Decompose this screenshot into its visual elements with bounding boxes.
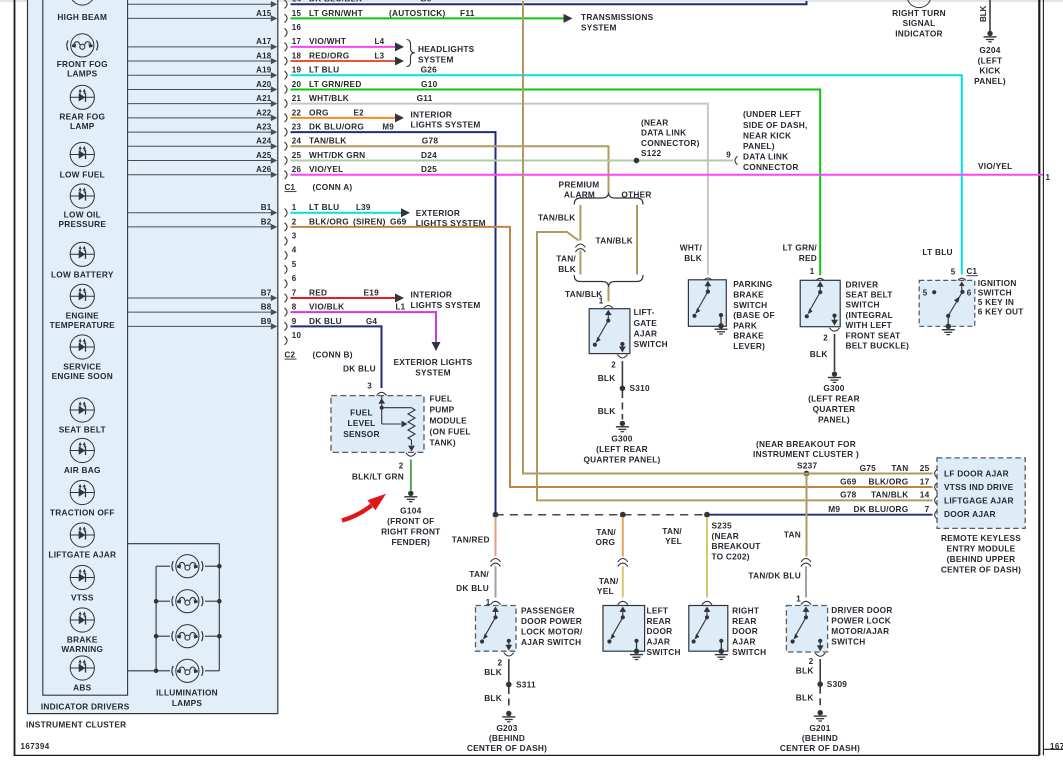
svg-text:YEL: YEL: [665, 536, 682, 546]
svg-text:L4: L4: [375, 37, 385, 46]
wire instrument cluster pin A17: [128, 37, 278, 50]
svg-text:TAN/BLK: TAN/BLK: [596, 236, 634, 246]
svg-text:PARK: PARK: [733, 320, 757, 330]
svg-text:LOCK MOTOR/: LOCK MOTOR/: [521, 626, 583, 636]
svg-text:WHT/BLK: WHT/BLK: [309, 93, 349, 103]
wire instrument cluster pin B1: [128, 203, 278, 216]
node connector C2 pin 7: [285, 288, 297, 302]
svg-text:SYSTEM: SYSTEM: [418, 54, 454, 64]
svg-text:B2: B2: [261, 217, 272, 226]
indicator brake: [61, 608, 103, 654]
svg-text:22: 22: [292, 108, 302, 117]
svg-text:VTSS: VTSS: [71, 592, 94, 602]
svg-text:QUARTER: QUARTER: [813, 404, 856, 414]
svg-text:BLK/ORG: BLK/ORG: [868, 476, 908, 486]
wire instrument cluster pin A24: [128, 137, 278, 150]
wire G69 BLK/ORG to remote keyless module pin 17: [509, 476, 933, 487]
wire TAN/BLK circuit G78 to liftgate ajar switch: [291, 136, 609, 193]
indicator drivers box: [41, 0, 130, 712]
svg-text:DK BLU: DK BLU: [456, 583, 489, 593]
wire DK BLU circuit G4 to fuel pump module: [291, 316, 382, 388]
svg-text:AJAR SWITCH: AJAR SWITCH: [521, 637, 581, 647]
svg-text:TAN/BLK: TAN/BLK: [565, 289, 603, 299]
svg-text:G69: G69: [390, 216, 407, 226]
svg-text:DOOR: DOOR: [647, 626, 673, 636]
svg-text:21: 21: [292, 94, 302, 103]
svg-text:CENTER OF DASH): CENTER OF DASH): [780, 743, 860, 753]
svg-text:6: 6: [967, 288, 972, 297]
wire adjacent page bottom border fragment: [1043, 748, 1063, 750]
svg-text:INSTRUMENT CLUSTER ): INSTRUMENT CLUSTER ): [753, 449, 859, 459]
svg-text:FENDER): FENDER): [391, 537, 430, 547]
node connector C1 label: [285, 182, 353, 192]
wire BLK passenger door to splice S311: [484, 659, 509, 682]
ground right rear door switch: [715, 649, 728, 660]
node page number 167 (next page, cut): [1050, 742, 1063, 751]
node inline connector on left branch: [575, 244, 585, 252]
svg-text:1: 1: [292, 203, 297, 212]
svg-text:14: 14: [920, 490, 930, 500]
svg-text:C2: C2: [285, 351, 296, 360]
svg-text:LEVEL: LEVEL: [348, 418, 376, 428]
svg-text:PUMP: PUMP: [430, 405, 455, 415]
svg-text:LT GRN/WHT: LT GRN/WHT: [309, 8, 363, 18]
svg-text:(SIREN): (SIREN): [353, 216, 386, 226]
wire instrument cluster pin B2: [128, 217, 278, 230]
ground G203: [467, 711, 547, 753]
svg-text:AJAR: AJAR: [732, 637, 756, 647]
node connector C2 pin 9: [285, 317, 297, 331]
node LT GRN/RED label: [783, 242, 818, 263]
indicator low fuel: [60, 142, 105, 179]
svg-text:(LEFT: (LEFT: [978, 55, 1003, 65]
svg-text:RED: RED: [309, 287, 327, 297]
node splice S309: [817, 679, 847, 689]
svg-text:TAN: TAN: [784, 529, 801, 539]
wire BLK liftgate to splice S310: [598, 361, 623, 386]
wire G78 TAN/BLK to remote keyless module pin 14: [536, 490, 933, 501]
svg-text:LEVER): LEVER): [733, 341, 765, 351]
svg-text:(BEHIND: (BEHIND: [802, 733, 838, 743]
node connector C1 pin 19: [285, 66, 302, 80]
svg-text:C1: C1: [285, 183, 296, 192]
svg-text:PANEL): PANEL): [743, 141, 775, 151]
svg-text:CENTER OF DASH): CENTER OF DASH): [941, 564, 1021, 574]
indicator right turn signal (cut at top): [892, 0, 946, 38]
ground G104: [381, 491, 440, 547]
node premium alarm / other branch labels: [559, 180, 652, 200]
wire WHT/BLK circuit G11 to parking brake switch: [291, 93, 708, 274]
wire instrument cluster pin B7: [128, 288, 278, 301]
svg-text:3: 3: [292, 232, 297, 241]
switch left rear door ajar: [603, 601, 681, 657]
node connector C1 pin 14: [285, 0, 302, 8]
wire G75 TAN to remote keyless module pin 25: [522, 1, 933, 475]
svg-text:RED: RED: [799, 253, 817, 263]
wire RED circuit E19 to interior lights: [291, 287, 405, 302]
resistor fuel level sensor: [378, 396, 415, 452]
indicator traction off: [50, 480, 115, 517]
node fuel pump module label: [430, 394, 471, 448]
svg-text:DK BLU/BLK: DK BLU/BLK: [309, 0, 362, 4]
node connector C2 pin 2: [285, 217, 297, 231]
svg-text:7: 7: [292, 288, 297, 297]
svg-text:VIO/BLK: VIO/BLK: [309, 302, 344, 312]
ground left rear door switch: [630, 649, 643, 660]
svg-text:2: 2: [399, 462, 404, 471]
svg-text:(LEFT REAR: (LEFT REAR: [596, 444, 648, 454]
svg-text:BRAKE: BRAKE: [733, 290, 764, 300]
svg-text:BLK/ORG: BLK/ORG: [309, 216, 349, 226]
svg-text:LAMPS: LAMPS: [67, 69, 98, 79]
svg-text:E19: E19: [364, 287, 380, 297]
svg-text:(BEHIND UPPER: (BEHIND UPPER: [947, 554, 1016, 564]
wire TAN/BLK to liftgate switch pin 1: [565, 287, 609, 305]
wire LT GRN/RED circuit G10 to driver seat belt switch: [291, 79, 821, 275]
node connector C1 pin 18: [285, 51, 302, 65]
svg-text:(CONN B): (CONN B): [313, 350, 353, 360]
node data link connector pin 9: [726, 109, 807, 172]
svg-text:MODULE: MODULE: [430, 416, 468, 426]
svg-text:ENGINE: ENGINE: [66, 310, 100, 320]
node exterior lights system label (B1): [416, 208, 486, 228]
svg-text:G75: G75: [860, 463, 877, 473]
node interior lights system label (top): [411, 109, 481, 129]
indicator front fog: [57, 34, 108, 79]
node connector C1 pin 20: [285, 80, 302, 94]
node remote keyless module pin arc: [935, 469, 938, 477]
switch driver seat belt: [800, 267, 909, 351]
svg-text:BELT BUCKLE): BELT BUCKLE): [846, 341, 910, 351]
svg-text:9: 9: [726, 151, 731, 160]
svg-text:(ON FUEL: (ON FUEL: [430, 427, 471, 437]
svg-text:(NEAR: (NEAR: [641, 118, 669, 128]
wire TAN/ORG to left rear door switch: [596, 517, 623, 557]
node connector C2 label: [285, 350, 353, 360]
node connector C1 pin 26: [285, 165, 302, 179]
svg-text:A25: A25: [256, 151, 272, 160]
wire TAN/BLK right branch: [596, 205, 638, 275]
wire TAN/YEL to left rear door switch: [597, 567, 623, 598]
svg-text:SWITCH: SWITCH: [733, 300, 767, 310]
node M9 DK BLU/ORG pin 7 labels: [828, 504, 929, 514]
svg-text:(NEAR BREAKOUT FOR: (NEAR BREAKOUT FOR: [756, 439, 856, 449]
node connector C2 pin 5: [285, 260, 297, 274]
svg-text:HIGH BEAM: HIGH BEAM: [57, 12, 107, 22]
svg-text:A19: A19: [256, 66, 272, 75]
svg-text:24: 24: [292, 137, 302, 146]
svg-text:TO C202): TO C202): [712, 552, 750, 562]
svg-text:TAN/: TAN/: [469, 569, 489, 579]
svg-text:SEAT BELT: SEAT BELT: [846, 290, 893, 300]
node connector C2 pin 1: [285, 203, 297, 217]
svg-text:CONNECTOR: CONNECTOR: [743, 162, 799, 172]
svg-text:BLK: BLK: [598, 406, 616, 416]
svg-text:(INTEGRAL: (INTEGRAL: [846, 310, 893, 320]
svg-text:INDICATOR: INDICATOR: [895, 28, 943, 38]
wire BLK driver door to splice S309: [796, 659, 820, 682]
svg-text:YEL: YEL: [597, 586, 614, 596]
svg-text:PREMIUM: PREMIUM: [559, 180, 600, 190]
svg-text:INDICATOR DRIVERS: INDICATOR DRIVERS: [41, 702, 130, 712]
svg-text:ORG: ORG: [309, 107, 329, 117]
svg-text:L1: L1: [396, 303, 406, 312]
svg-text:RIGHT FRONT: RIGHT FRONT: [381, 526, 440, 536]
svg-text:INTERIOR: INTERIOR: [411, 109, 453, 119]
ground G204: [974, 31, 1006, 86]
svg-text:FRONT FOG: FRONT FOG: [57, 59, 108, 69]
svg-text:BLK: BLK: [796, 692, 814, 702]
svg-text:ABS: ABS: [73, 683, 91, 693]
node WHT/BLK label: [680, 242, 703, 263]
svg-text:KICK: KICK: [979, 66, 1000, 76]
node splice on bus at left rear door: [620, 512, 626, 518]
node headlights system label with brace: [407, 40, 475, 67]
wire page bottom border: [15, 754, 1040, 756]
switch liftgate ajar: [589, 306, 668, 354]
wire instrument cluster pin A25: [128, 151, 278, 164]
svg-text:1: 1: [1046, 173, 1051, 182]
indicator low battery: [51, 242, 114, 279]
indicator high beam: [57, 0, 107, 22]
svg-text:LIFTGATE AJAR: LIFTGATE AJAR: [48, 550, 116, 560]
svg-text:G69: G69: [840, 476, 857, 486]
svg-text:M9: M9: [828, 504, 840, 514]
svg-text:REMOTE KEYLESS: REMOTE KEYLESS: [941, 533, 1021, 543]
wire TAN/BLK left branch: [538, 205, 580, 241]
svg-text:S235: S235: [712, 520, 733, 530]
wire instrument cluster pin A14: [128, 1, 278, 7]
svg-text:(UNDER LEFT: (UNDER LEFT: [743, 109, 801, 119]
svg-text:9: 9: [292, 317, 297, 326]
svg-text:LF DOOR AJAR: LF DOOR AJAR: [944, 468, 1009, 478]
svg-text:AJAR: AJAR: [634, 328, 658, 338]
svg-text:TAN/RED: TAN/RED: [452, 535, 490, 545]
svg-text:VIO/YEL: VIO/YEL: [309, 164, 343, 174]
svg-text:TRANSMISSIONS: TRANSMISSIONS: [581, 12, 654, 22]
wire DK BLU/BLK circuit G9 (row 14): [291, 0, 807, 5]
indicator air bag: [64, 438, 101, 475]
svg-text:3: 3: [367, 382, 372, 391]
wire BLK/ORG circuit G69 (siren) to remote keyless module: [291, 216, 511, 487]
svg-text:E2: E2: [354, 108, 365, 117]
svg-text:ENTRY MODULE: ENTRY MODULE: [947, 543, 1016, 553]
svg-text:A15: A15: [256, 9, 272, 18]
svg-text:NEAR KICK: NEAR KICK: [743, 130, 791, 140]
svg-text:20: 20: [292, 80, 302, 89]
svg-text:LT GRN/: LT GRN/: [783, 242, 818, 252]
svg-text:LT BLU: LT BLU: [922, 247, 952, 257]
svg-text:BLK/LT GRN: BLK/LT GRN: [352, 471, 404, 481]
svg-text:A17: A17: [256, 37, 272, 46]
wire instrument cluster pin B9: [128, 317, 278, 330]
svg-text:PASSENGER: PASSENGER: [521, 605, 575, 615]
wire ORG circuit E2 to interior lights: [291, 107, 405, 122]
node transmissions system label: [581, 12, 654, 33]
svg-text:TANK): TANK): [430, 438, 456, 448]
svg-text:SERVICE: SERVICE: [63, 362, 101, 372]
node connector C2 pin 6: [285, 274, 297, 288]
node red annotation arrow: [342, 494, 386, 521]
svg-text:INTERIOR: INTERIOR: [411, 290, 453, 300]
svg-text:10: 10: [292, 331, 302, 340]
svg-text:5: 5: [951, 267, 956, 276]
wire illumination lamps bus: [128, 544, 222, 673]
svg-text:ORG: ORG: [596, 537, 616, 547]
node interior lights system label (B7): [411, 290, 481, 310]
svg-text:G78: G78: [422, 136, 439, 146]
svg-text:BLK: BLK: [796, 665, 814, 675]
svg-text:PANEL): PANEL): [974, 76, 1006, 86]
svg-text:TEMPERATURE: TEMPERATURE: [50, 320, 116, 330]
svg-text:2: 2: [292, 217, 297, 226]
svg-text:DK BLU: DK BLU: [343, 364, 376, 374]
node splice S237: [804, 471, 810, 477]
node connector C2 pin 4: [285, 246, 297, 260]
ground G300 (liftgate): [583, 421, 660, 465]
svg-text:25: 25: [920, 463, 930, 473]
remote keyless entry module box: [937, 458, 1025, 574]
wire TAN/RED to passenger door switch: [452, 517, 496, 557]
svg-text:REAR: REAR: [732, 616, 757, 626]
svg-text:TAN/BLK: TAN/BLK: [538, 213, 576, 223]
node passenger door switch pin 2: [498, 653, 514, 668]
svg-text:SYSTEM: SYSTEM: [581, 23, 617, 33]
svg-text:TAN/: TAN/: [556, 254, 576, 264]
switch passenger door power lock motor/ajar: [476, 598, 584, 651]
wire RED/ORG circuit L3 to headlights: [291, 50, 405, 65]
svg-text:BLK: BLK: [484, 693, 502, 703]
svg-text:SIGNAL: SIGNAL: [903, 18, 936, 28]
wire TAN/BLK left branch lower: [556, 251, 580, 275]
svg-text:DATA LINK: DATA LINK: [641, 128, 686, 138]
svg-text:SIDE OF DASH,: SIDE OF DASH,: [743, 120, 808, 130]
wire TAN/BLK tap to remote module (G78): [536, 231, 579, 500]
svg-text:DK BLU/ORG: DK BLU/ORG: [309, 121, 364, 131]
wire WHT/DK GRN circuit D24 to data link connector, splice S122: [291, 150, 734, 163]
svg-text:WHT/DK GRN: WHT/DK GRN: [309, 150, 365, 160]
svg-text:2: 2: [498, 659, 503, 668]
svg-text:FUEL: FUEL: [350, 407, 373, 417]
svg-text:DK BLU: DK BLU: [309, 316, 342, 326]
svg-text:G26: G26: [421, 65, 438, 75]
svg-text:G203: G203: [496, 723, 517, 733]
wire TAN/DK BLU to driver door switch pin 1: [748, 567, 806, 598]
svg-text:EXTERIOR LIGHTS: EXTERIOR LIGHTS: [394, 357, 473, 367]
svg-text:BLK: BLK: [810, 349, 828, 359]
indicator rear fog: [59, 85, 105, 131]
svg-text:5: 5: [923, 288, 928, 297]
svg-text:16: 16: [292, 23, 302, 32]
svg-text:TAN/DK BLU: TAN/DK BLU: [748, 571, 801, 581]
svg-text:(BASE OF: (BASE OF: [733, 310, 775, 320]
svg-text:LAMPS: LAMPS: [172, 698, 203, 708]
svg-text:G78: G78: [840, 490, 857, 500]
svg-text:RIGHT: RIGHT: [732, 605, 759, 615]
node splice S311: [506, 679, 536, 689]
svg-text:G204: G204: [979, 45, 1000, 55]
svg-text:6: 6: [292, 274, 297, 283]
svg-text:A24: A24: [256, 137, 272, 146]
wire TAN from S237 to driver door switch: [784, 475, 807, 557]
svg-text:SWITCH: SWITCH: [732, 647, 766, 657]
svg-text:PANEL): PANEL): [818, 414, 850, 424]
svg-text:S309: S309: [827, 679, 848, 689]
svg-text:BLK: BLK: [484, 667, 502, 677]
wire instrument cluster pin A21: [128, 94, 278, 107]
svg-text:SYSTEM: SYSTEM: [415, 367, 451, 377]
node driver door switch pin 2: [809, 653, 825, 666]
node ignition connector C1 pin 5: [951, 267, 978, 282]
svg-text:DRIVER: DRIVER: [846, 279, 879, 289]
svg-text:PRESSURE: PRESSURE: [58, 219, 106, 229]
svg-text:SEAT BELT: SEAT BELT: [59, 425, 106, 435]
node inline connector (driver door): [801, 559, 811, 567]
node connector C1 pin 21: [285, 94, 302, 108]
svg-text:FUEL: FUEL: [430, 394, 453, 404]
svg-text:TAN/: TAN/: [599, 576, 619, 586]
svg-text:5: 5: [292, 260, 297, 269]
svg-text:POWER LOCK: POWER LOCK: [831, 616, 891, 626]
svg-text:SWITCH: SWITCH: [647, 647, 681, 657]
svg-text:(NEAR: (NEAR: [712, 531, 740, 541]
svg-text:G104: G104: [400, 505, 421, 515]
svg-text:QUARTER PANEL): QUARTER PANEL): [583, 454, 660, 464]
wire LT BLU circuit G26 to ignition switch: [291, 65, 962, 275]
svg-text:1: 1: [599, 296, 604, 305]
svg-text:AJAR: AJAR: [647, 637, 671, 647]
switch parking brake: [688, 278, 774, 351]
svg-text:A23: A23: [256, 122, 272, 131]
wire instrument cluster pin A20: [128, 80, 278, 93]
wire instrument cluster pin A18: [128, 51, 278, 64]
wire page right double border: [1039, 0, 1043, 755]
svg-text:B9: B9: [261, 317, 272, 326]
svg-text:ILLUMINATION: ILLUMINATION: [156, 687, 218, 697]
svg-text:1: 1: [810, 267, 815, 276]
svg-text:VTSS IND DRIVE: VTSS IND DRIVE: [944, 482, 1014, 492]
node splice S235: [704, 512, 760, 562]
svg-text:A20: A20: [256, 80, 272, 89]
node connector C2 pin 8: [285, 303, 297, 317]
svg-text:BRAKE: BRAKE: [733, 331, 764, 341]
svg-text:B1: B1: [261, 203, 272, 212]
wire instrument cluster pin A15: [128, 9, 278, 22]
svg-text:WITH LEFT: WITH LEFT: [846, 320, 893, 330]
svg-text:17: 17: [920, 476, 930, 486]
switch right rear door ajar: [689, 601, 767, 657]
node connector C1 pin 25: [285, 151, 302, 165]
svg-text:LIGHTS SYSTEM: LIGHTS SYSTEM: [411, 120, 481, 130]
svg-text:TAN/: TAN/: [596, 527, 616, 537]
svg-text:7: 7: [925, 504, 930, 514]
svg-text:D25: D25: [421, 164, 437, 174]
svg-text:G11: G11: [417, 93, 433, 103]
svg-text:(BEHIND: (BEHIND: [489, 733, 525, 743]
node splice S122 label: [641, 118, 700, 159]
node splice S237 label: [753, 439, 859, 471]
node remote keyless module pin arc: [935, 496, 938, 504]
svg-text:8: 8: [292, 303, 297, 312]
node inline connector (left rear door): [618, 559, 628, 567]
svg-text:TAN/: TAN/: [662, 526, 682, 536]
svg-text:SWITCH: SWITCH: [634, 339, 668, 349]
svg-text:TAN: TAN: [891, 463, 908, 473]
svg-text:BLK: BLK: [684, 253, 702, 263]
svg-text:SWITCH: SWITCH: [831, 637, 865, 647]
svg-text:B8: B8: [261, 303, 272, 312]
svg-text:25: 25: [292, 151, 302, 160]
